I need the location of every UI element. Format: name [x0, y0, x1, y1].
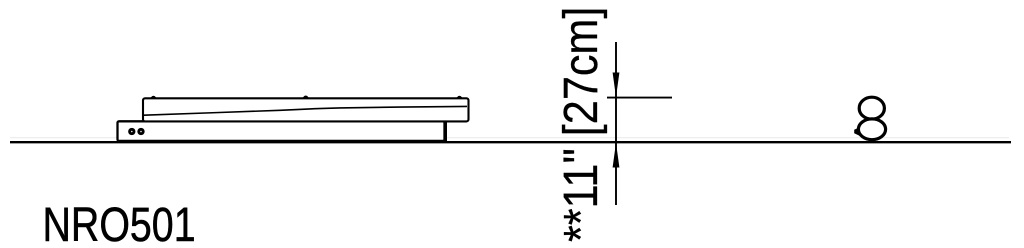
- screw bump left: [151, 96, 156, 97]
- top plank: [143, 98, 469, 121]
- dimension vertical line: [615, 42, 617, 205]
- screw bump right: [457, 96, 462, 97]
- faint shadow line above ground: [10, 137, 1009, 139]
- base right edge thick: [444, 121, 447, 142]
- svg-text:**11" [27cm]: **11" [27cm]: [554, 7, 608, 242]
- ground line: [10, 141, 1011, 143]
- arrow up to ground: [613, 143, 620, 168]
- log end-view bottom circle: [858, 119, 885, 140]
- arrow down to top-level: [613, 73, 620, 98]
- svg-text:NRO501: NRO501: [43, 198, 196, 248]
- log end-view top circle: [859, 97, 884, 119]
- bolt 2: [139, 129, 143, 133]
- curved board line inside plank: [144, 106, 467, 115]
- screw bump middle: [304, 96, 309, 97]
- bolt 1: [130, 129, 134, 133]
- base beam of springer: [118, 121, 445, 141]
- extension line at beam top level: [607, 97, 672, 99]
- bolt nub on bottom log: [854, 127, 859, 136]
